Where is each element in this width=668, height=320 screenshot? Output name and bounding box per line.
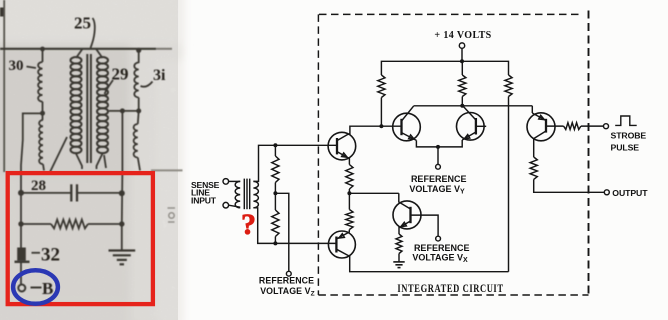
node: supply rail junction	[460, 59, 464, 63]
svg-text:VOLTAGE VY: VOLTAGE VY	[409, 184, 465, 196]
resistor (unlabelled) in red box	[51, 220, 88, 229]
svg-text:OUTPUT: OUTPUT	[612, 188, 648, 198]
wire: coil 30 top lead	[42, 49, 44, 62]
blue highlight ellipse around terminal B	[13, 270, 58, 304]
sense transformer core	[243, 179, 245, 210]
wire: bus corner down to Q6	[531, 106, 533, 113]
wire: to strobe terminal	[581, 125, 603, 127]
transformer 25 core	[86, 54, 88, 163]
transistor Q6 (output strobe)	[527, 113, 564, 141]
wire: secondary top lead to Q1 base	[253, 145, 337, 181]
wire: +14V supply rail	[381, 61, 508, 75]
dashed border: left edge	[317, 14, 319, 295]
wire: Q1 collector up to RA junction	[349, 126, 382, 134]
svg-text:29: 29	[112, 65, 129, 84]
svg-text:INTEGRATED CIRCUIT: INTEGRATED CIRCUIT	[397, 283, 503, 296]
node: junction of coil 30 top with rail	[40, 47, 45, 52]
terminal B circle	[18, 285, 25, 292]
resistor R5 (output)	[530, 157, 537, 179]
wire: top horizontal rail of scan	[0, 48, 156, 50]
scan paper mottle	[0, 0, 178, 320]
Q3 base stub	[476, 125, 486, 127]
node: divider bottom junction	[273, 241, 277, 245]
label pointer for 29	[105, 80, 114, 94]
wire: junction to Q5 base	[349, 192, 398, 194]
transistor Q2 (diff pair left)	[381, 106, 420, 141]
resistor: middle load RB	[459, 75, 466, 97]
page edge mark top-left	[0, 8, 4, 17]
wire: RC long vertical to bottom rail	[508, 97, 510, 272]
svg-text:+ 14 VOLTS: + 14 VOLTS	[434, 30, 491, 41]
resistor: right divider RC	[505, 75, 512, 97]
wire: ground column	[121, 111, 124, 250]
resistor R6 (divider upper)	[274, 145, 276, 156]
sense transformer primary winding	[235, 181, 240, 207]
node: heavy junction right of capacitor	[119, 190, 125, 196]
label pointer for 32	[32, 252, 41, 254]
transistor Q3 (diff pair right)	[457, 106, 487, 140]
resistor R1 (Q1 emitter)	[346, 165, 353, 190]
wire: Q6 emitter down	[533, 139, 535, 158]
node: junction left of resistor	[18, 221, 23, 226]
node: divider top junction	[273, 143, 277, 147]
svg-text:REFERENCE: REFERENCE	[259, 276, 314, 286]
transformer 25 right (secondary) winding	[97, 57, 108, 153]
svg-text:?: ?	[241, 208, 256, 241]
terminal: reference voltage Vy	[436, 164, 441, 169]
wire: secondary bottom lead to Q4 base	[253, 208, 336, 244]
svg-text:PULSE: PULSE	[611, 142, 640, 152]
wire: Q5 collector to Vx terminal	[411, 215, 439, 236]
dashed border: bottom edge	[318, 294, 588, 296]
node: junction of ground column tap	[120, 108, 125, 113]
Q6 base lead right	[546, 125, 564, 127]
node: junction below coil 31	[136, 108, 141, 113]
node: RB / diff collectors junction	[460, 104, 464, 108]
wire: middle resistor top lead	[461, 61, 463, 75]
node: R1/R2/Vx-base junction	[347, 191, 351, 195]
inductor coil 30 (lower)	[39, 120, 43, 164]
wire: secondary top lead to rail	[96, 49, 103, 58]
ground symbol (scan)	[109, 249, 136, 251]
dashed border: right edge	[588, 11, 590, 296]
capacitor 28 plates	[70, 184, 72, 201]
wire: to output terminal	[534, 179, 605, 192]
node: emitter junction to Vy	[436, 145, 440, 149]
terminal: +14 volts	[459, 43, 464, 48]
svg-text:VOLTAGE VX: VOLTAGE VX	[412, 252, 468, 264]
wire: primary winding tap diagonal	[50, 137, 67, 172]
wire: RB bottom lead	[461, 97, 463, 106]
node: RA / Q1 collector / Q2-left base junction	[379, 124, 383, 128]
dash to label B	[31, 287, 42, 289]
node: junction right of resistor	[119, 221, 124, 226]
wire: Q1 emitter lead	[348, 158, 351, 164]
terminal: strobe pulse	[604, 124, 609, 129]
wire: diff pair shared emitter	[416, 140, 462, 147]
wire: left vertical bus of scan	[3, 0, 5, 172]
label pointer for 25	[91, 18, 95, 48]
scan wire stub right of red box	[151, 169, 183, 171]
label INTEGRATED CIRCUIT	[397, 283, 503, 296]
svg-text:INPUT: INPUT	[191, 196, 217, 206]
resistor R7 (divider lower)	[272, 210, 279, 237]
terminal: output	[604, 190, 609, 195]
wire: Vz stub	[275, 193, 288, 271]
node: heavy junction left of capacitor	[18, 190, 24, 196]
svg-text:25: 25	[74, 14, 91, 33]
node: junction below coil 30	[40, 111, 45, 116]
svg-text:REFERENCE: REFERENCE	[411, 174, 467, 184]
ground symbol (IC)	[393, 261, 404, 263]
wire: secondary bottom lead diagonals	[104, 155, 106, 168]
svg-text:REFERENCE: REFERENCE	[414, 243, 470, 253]
transformer 25 left (primary) winding	[71, 57, 82, 153]
transistor Q1 (input upper)	[328, 132, 356, 160]
wire: Q4 emitter to bottom rail	[349, 256, 509, 272]
sense transformer secondary winding	[253, 181, 258, 207]
red highlight rectangle	[8, 173, 153, 304]
terminal: reference voltage Vz	[286, 271, 291, 276]
inductor coil 30 (upper)	[38, 62, 42, 102]
terminal: reference voltage Vx	[436, 236, 441, 241]
resistor R2 (to Q4 collector)	[346, 210, 353, 230]
wire: left column down to element 32	[20, 193, 22, 248]
strobe pulse waveform icon	[615, 116, 637, 125]
wire: RA bottom lead	[380, 98, 382, 127]
node: junction coil 31 top	[136, 48, 141, 53]
wire: branch from coil 30 junction to capacitor chain	[21, 113, 43, 193]
partial component fragment at scan edge	[168, 207, 176, 209]
wires: sense terminals to transformer	[229, 180, 241, 182]
resistor: left load RA	[378, 75, 385, 98]
wire: collector bus of differential pair	[414, 105, 533, 107]
transistor Q4 (input lower)	[328, 231, 355, 258]
resistor R3 (Q5 emitter)	[396, 234, 402, 254]
wire: down to terminal B	[20, 263, 22, 285]
inductor coil 31 (upper)	[134, 63, 138, 98]
sense input terminals	[223, 179, 229, 185]
svg-text:3i: 3i	[153, 67, 166, 84]
svg-text:B: B	[42, 279, 53, 298]
wire: secondary side tap to coil 31 column	[109, 110, 139, 112]
svg-text:30: 30	[9, 58, 24, 74]
wire: Q5 emitter lead	[398, 228, 400, 234]
wire: primary bottom lead diagonals	[76, 154, 82, 170]
wire: primary top lead to rail	[76, 49, 83, 58]
resistor R4 (strobe base)	[564, 123, 581, 130]
svg-text:STROBE: STROBE	[611, 131, 647, 141]
wire: Vy stub	[437, 147, 439, 165]
dashed border: integrated circuit box top edge	[319, 13, 581, 15]
wire: resistor row	[21, 223, 51, 225]
scanned schematic background panel	[0, 0, 178, 320]
element 32 (polarized cell) body	[17, 248, 26, 261]
svg-text:VOLTAGE VZ: VOLTAGE VZ	[260, 286, 315, 298]
inductor coil 31 (lower)	[137, 111, 140, 124]
wire: capacitor 28 row	[21, 192, 71, 194]
svg-text:32: 32	[41, 245, 60, 266]
node: divider mid junction (Vz)	[273, 191, 277, 195]
transistor Q5 (reference Vx)	[393, 193, 421, 229]
wire: coil 31 top lead from rail	[138, 49, 140, 63]
svg-text:28: 28	[31, 178, 46, 194]
wire: +14V feed	[461, 48, 463, 61]
label pointer for 30	[27, 67, 37, 69]
label pointer for 31	[141, 82, 153, 87]
